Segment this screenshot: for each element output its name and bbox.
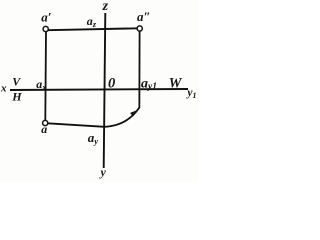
x axis <box>10 89 188 90</box>
svg-text:0: 0 <box>108 76 115 92</box>
svg-text:H: H <box>11 89 22 103</box>
svg-text:a″: a″ <box>137 9 151 24</box>
svg-text:y: y <box>99 165 107 179</box>
arrowhead on arc <box>130 110 136 116</box>
point a' <box>43 26 48 31</box>
z-y axis <box>104 13 106 168</box>
svg-text:z: z <box>102 0 109 14</box>
wire a to a_y <box>48 123 105 127</box>
svg-text:W: W <box>169 76 183 92</box>
arc a_y to a_y1 <box>104 108 140 127</box>
point a'' <box>137 26 142 31</box>
svg-text:a′: a′ <box>41 10 52 25</box>
svg-text:V: V <box>12 75 21 89</box>
wire a' to a'' <box>48 28 139 30</box>
point a <box>43 120 48 125</box>
wire a' to a <box>44 31 47 122</box>
svg-text:x: x <box>0 83 7 95</box>
svg-text:a: a <box>41 122 47 136</box>
wire a'' down to arc <box>138 30 140 108</box>
